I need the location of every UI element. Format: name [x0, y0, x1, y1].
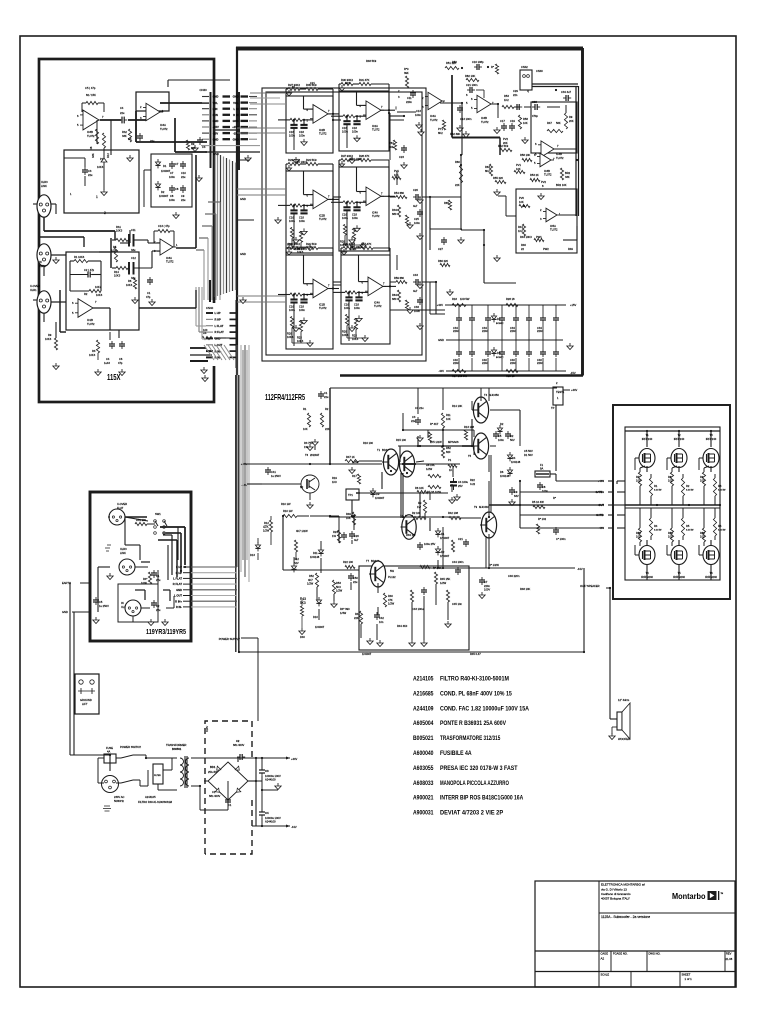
- svg-text:TL072: TL072: [481, 120, 489, 124]
- svg-text:R59 680: R59 680: [394, 276, 405, 280]
- svg-text:C18: C18: [354, 302, 359, 306]
- svg-text:OUT: OUT: [598, 503, 604, 507]
- svg-text:GND: GND: [62, 610, 68, 614]
- svg-text:+15V: +15V: [232, 125, 238, 129]
- svg-text:A600040: A600040: [413, 750, 434, 757]
- svg-text:C21: C21: [458, 537, 463, 541]
- svg-text:R65: R65: [444, 201, 449, 205]
- svg-text:220n: 220n: [453, 329, 459, 333]
- svg-text:IC3A: IC3A: [166, 256, 172, 260]
- svg-text:R2: R2: [84, 292, 88, 296]
- svg-text:BC805C: BC805C: [496, 357, 504, 359]
- svg-text:+40V: +40V: [437, 303, 443, 307]
- svg-text:C16 108p: C16 108p: [472, 60, 484, 64]
- svg-text:100n: 100n: [414, 309, 420, 313]
- svg-text:C3 22u: C3 22u: [415, 406, 424, 410]
- svg-text:680: 680: [392, 297, 397, 301]
- svg-text:R13 108: R13 108: [464, 425, 475, 429]
- svg-text:R22 100: R22 100: [343, 560, 354, 564]
- svg-text:BD1: BD1: [210, 765, 216, 769]
- svg-text:100n: 100n: [299, 308, 305, 312]
- svg-text:1N4007: 1N4007: [315, 625, 325, 629]
- svg-text:2: 2: [104, 211, 106, 215]
- svg-text:R7: R7: [636, 475, 640, 479]
- svg-text:100: 100: [203, 328, 208, 332]
- svg-text:R* 102: R* 102: [538, 517, 547, 521]
- svg-text:FILTRO R40-KI-3100/S031M: FILTRO R40-KI-3100/S031M: [138, 800, 172, 804]
- svg-text:R29 10K3: R29 10K3: [350, 245, 362, 249]
- svg-text:-44V: -44V: [598, 526, 604, 530]
- svg-text:R49: R49: [568, 247, 573, 251]
- svg-text:R52: R52: [309, 574, 314, 578]
- svg-text:TL072: TL072: [372, 214, 380, 218]
- svg-text:220n: 220n: [406, 100, 412, 104]
- svg-text:C22: C22: [345, 81, 350, 85]
- svg-text:X-OVER: X-OVER: [117, 502, 127, 506]
- svg-text:IC1B: IC1B: [319, 303, 325, 307]
- svg-text:230V AC: 230V AC: [114, 795, 125, 799]
- svg-text:100K: 100K: [141, 581, 147, 585]
- svg-text:1/2W: 1/2W: [336, 589, 343, 593]
- svg-text:VOL: VOL: [233, 101, 239, 105]
- svg-text:10K: 10K: [446, 417, 451, 421]
- svg-text:C10: C10: [181, 171, 186, 175]
- svg-text:115X: 115X: [107, 373, 121, 382]
- svg-text:MPSA06: MPSA06: [448, 440, 459, 444]
- svg-text:22u: 22u: [150, 139, 155, 143]
- svg-text:1N4007: 1N4007: [375, 496, 385, 500]
- svg-text:10K3: 10K3: [352, 337, 359, 341]
- svg-text:TL072: TL072: [430, 118, 438, 122]
- svg-text:IC4A: IC4A: [372, 210, 378, 214]
- svg-text:IC4A: IC4A: [160, 123, 166, 127]
- svg-text:WOOFER: WOOFER: [618, 737, 630, 741]
- svg-text:TEST1: TEST1: [556, 390, 565, 394]
- svg-text:+44V: +44V: [598, 479, 604, 483]
- svg-text:C18: C18: [299, 215, 304, 219]
- svg-text:1W: 1W: [332, 534, 336, 538]
- svg-text:0.22: 0.22: [470, 482, 476, 486]
- svg-text:T7: T7: [366, 559, 370, 563]
- svg-text:A900021: A900021: [413, 795, 434, 802]
- svg-text:OUT/ SPEAKER: OUT/ SPEAKER: [580, 584, 600, 588]
- svg-text:C27: C27: [438, 247, 443, 251]
- svg-text:100n: 100n: [354, 306, 360, 310]
- svg-text:P1: P1: [448, 458, 452, 462]
- svg-text:C1: C1: [324, 391, 328, 395]
- svg-text:2N2497: 2N2497: [310, 453, 320, 457]
- svg-text:A608033: A608033: [413, 780, 434, 787]
- svg-text:REV: REV: [726, 952, 732, 956]
- svg-text:R*: R*: [553, 496, 556, 500]
- svg-text:C19: C19: [510, 119, 515, 123]
- svg-text:4u7: 4u7: [354, 538, 359, 542]
- svg-text:LIFT: LIFT: [82, 702, 88, 706]
- svg-text:R41: R41: [355, 612, 360, 616]
- svg-text:R22 10K3: R22 10K3: [350, 157, 362, 161]
- svg-text:C5: C5: [99, 600, 103, 604]
- svg-text:220n: 220n: [537, 361, 543, 365]
- svg-text:310V: 310V: [205, 726, 209, 732]
- svg-text:L OUT: L OUT: [215, 343, 223, 347]
- svg-text:4u7: 4u7: [413, 204, 418, 208]
- svg-text:C18: C18: [352, 126, 357, 130]
- svg-text:DEVIAT 4/7203 2 VIE 2P: DEVIAT 4/7203 2 VIE 2P: [440, 810, 503, 817]
- svg-text:R53 2K: R53 2K: [530, 173, 539, 177]
- svg-text:MANOPOLA PICCOLA AZZURRO: MANOPOLA PICCOLA AZZURRO: [440, 780, 509, 787]
- svg-text:PONTE R B36931 25A 600V: PONTE R B36931 25A 600V: [440, 720, 507, 727]
- svg-text:C17: C17: [500, 119, 505, 123]
- svg-text:470p: 470p: [532, 114, 538, 118]
- svg-text:1K5 1/2W: 1K5 1/2W: [430, 440, 442, 444]
- svg-text:C1: C1: [147, 291, 151, 295]
- svg-text:1N4007: 1N4007: [362, 652, 372, 656]
- svg-text:+15V: +15V: [213, 125, 219, 129]
- svg-text:R42 108: R42 108: [448, 511, 459, 515]
- svg-text:1K8 5W: 1K8 5W: [460, 297, 470, 301]
- svg-text:R3: R3: [92, 349, 96, 353]
- svg-text:22n: 22n: [513, 93, 518, 97]
- svg-text:R18: R18: [452, 297, 457, 301]
- svg-text:D4: D4: [512, 456, 516, 460]
- svg-text:1K2: 1K2: [518, 229, 523, 233]
- svg-text:1u 250V: 1u 250V: [271, 474, 281, 478]
- svg-text:R82 10K: R82 10K: [465, 74, 476, 78]
- svg-text:TL072: TL072: [374, 304, 382, 308]
- svg-text:TL072: TL072: [319, 131, 327, 135]
- svg-text:SHEET: SHEET: [682, 973, 691, 977]
- svg-text:R50: R50: [452, 60, 457, 64]
- svg-text:IC4A: IC4A: [374, 300, 380, 304]
- svg-text:SCALE: SCALE: [601, 973, 610, 977]
- svg-text:10K3: 10K3: [116, 229, 123, 233]
- svg-text:C3: C3: [88, 169, 92, 173]
- svg-text:C12: C12: [131, 256, 136, 260]
- svg-text:220n: 220n: [510, 329, 516, 333]
- svg-text:100n: 100n: [498, 438, 504, 442]
- svg-text:R6: R6: [718, 524, 722, 528]
- svg-text:33K: 33K: [122, 134, 127, 138]
- svg-text:GND: GND: [213, 95, 219, 99]
- svg-text:GND: GND: [176, 588, 182, 592]
- svg-text:DWG NO.: DWG NO.: [649, 952, 661, 956]
- svg-text:Cadriano di Granarolo: Cadriano di Granarolo: [601, 892, 631, 896]
- svg-text:D2: D2: [510, 434, 514, 438]
- svg-text:C8: C8: [175, 187, 179, 191]
- svg-text:22u: 22u: [324, 395, 329, 399]
- svg-text:XLR1: XLR1: [30, 288, 37, 292]
- svg-text:100V: 100V: [484, 588, 490, 592]
- svg-text:1%: 1%: [304, 445, 308, 449]
- svg-text:R*: R*: [491, 65, 494, 69]
- svg-text:R58: R58: [523, 117, 528, 121]
- svg-text:R17 1K8 5W: R17 1K8 5W: [452, 374, 467, 378]
- svg-text:IC1B: IC1B: [87, 318, 93, 322]
- svg-text:PL122: PL122: [388, 575, 396, 579]
- svg-text:100n: 100n: [299, 219, 305, 223]
- svg-text:C3: C3: [412, 415, 416, 419]
- svg-text:22u: 22u: [411, 419, 416, 423]
- svg-text:D40: D40: [300, 635, 305, 639]
- svg-text:R24: R24: [333, 530, 338, 534]
- svg-text:R1 10K3: R1 10K3: [74, 255, 85, 259]
- svg-text:100n: 100n: [169, 198, 175, 202]
- svg-text:C1: C1: [228, 803, 232, 807]
- svg-text:GROUND: GROUND: [80, 698, 92, 702]
- svg-text:R55 220: R55 220: [493, 176, 504, 180]
- svg-text:-15V: -15V: [213, 131, 219, 135]
- svg-text:GATE+: GATE+: [595, 490, 604, 494]
- svg-text:R25: R25: [297, 336, 302, 340]
- svg-text:TP1: TP1: [348, 493, 353, 497]
- svg-text:R1: R1: [654, 484, 658, 488]
- svg-text:10K3: 10K3: [89, 353, 96, 357]
- svg-text:ELETTRONICA MONTARBO srl: ELETTRONICA MONTARBO srl: [601, 883, 645, 887]
- svg-text:1W: 1W: [417, 505, 421, 509]
- svg-text:8A: 8A: [540, 467, 543, 471]
- svg-text:C33: C33: [414, 305, 419, 309]
- svg-text:A244105: A244105: [145, 795, 156, 799]
- svg-text:COND. PL 68nF 400V 10% 15: COND. PL 68nF 400V 10% 15: [440, 690, 512, 697]
- svg-text:100n: 100n: [169, 175, 175, 179]
- svg-text:GND: GND: [213, 152, 219, 156]
- svg-text:LINK: LINK: [120, 551, 126, 555]
- svg-text:R14: R14: [114, 270, 119, 274]
- svg-text:R9: R9: [191, 142, 195, 146]
- svg-text:100: 100: [668, 479, 673, 483]
- svg-text:R19: R19: [332, 476, 337, 480]
- svg-text:100: 100: [700, 535, 705, 539]
- svg-text:BC805C: BC805C: [496, 323, 504, 325]
- svg-text:R64: R64: [392, 293, 397, 297]
- svg-text:20K: 20K: [569, 119, 574, 123]
- svg-text:R2: R2: [325, 407, 329, 411]
- svg-text:R10 1W: R10 1W: [283, 509, 293, 513]
- svg-text:1: 1: [96, 195, 98, 199]
- svg-text:R54 680: R54 680: [394, 191, 405, 195]
- svg-text:1K0: 1K0: [332, 480, 337, 484]
- svg-text:C18: C18: [299, 130, 304, 134]
- svg-text:47K: 47K: [263, 525, 270, 529]
- svg-text:FUSE: FUSE: [106, 746, 113, 750]
- svg-text:C21: C21: [310, 81, 315, 85]
- svg-text:22u: 22u: [120, 111, 125, 115]
- svg-text:T5: T5: [468, 454, 472, 458]
- svg-text:0.10 5W: 0.10 5W: [718, 530, 726, 532]
- svg-text:+44V: +44V: [291, 757, 297, 761]
- svg-text:XLR2: XLR2: [39, 264, 46, 268]
- svg-text:R48 10K: R48 10K: [520, 587, 531, 591]
- svg-text:39K: 39K: [404, 71, 409, 75]
- svg-text:C18: C18: [352, 212, 357, 216]
- svg-text:R26: R26: [342, 329, 347, 333]
- svg-text:C43: C43: [413, 273, 418, 277]
- svg-text:5K3: 5K3: [300, 601, 306, 605]
- svg-text:A605004: A605004: [413, 720, 434, 727]
- svg-text:119YR3/119YR5: 119YR3/119YR5: [146, 629, 186, 636]
- svg-text:C2: C2: [236, 739, 240, 743]
- svg-text:C18: C18: [299, 305, 304, 309]
- svg-text:R3: R3: [718, 484, 722, 488]
- svg-text:R44: R44: [518, 225, 523, 229]
- svg-text:TL072: TL072: [556, 156, 564, 160]
- svg-text:50V: 50V: [510, 438, 515, 442]
- svg-text:R43 10K3: R43 10K3: [520, 235, 532, 239]
- svg-text:GND: GND: [215, 337, 221, 341]
- svg-text:1/2W: 1/2W: [352, 460, 359, 464]
- svg-text:CAGE: CAGE: [601, 952, 609, 956]
- svg-text:220n: 220n: [482, 329, 488, 333]
- svg-text:TL072: TL072: [87, 134, 95, 138]
- svg-text:C38: C38: [532, 100, 537, 104]
- svg-text:FILTER: FILTER: [154, 775, 161, 777]
- svg-text:CN40: CN40: [206, 306, 214, 310]
- svg-text:1/2W: 1/2W: [307, 582, 314, 586]
- svg-text:C43 100u: C43 100u: [412, 607, 424, 611]
- svg-text:C8: C8: [542, 485, 546, 489]
- svg-text:1K2: 1K2: [504, 98, 509, 102]
- svg-text:T1: T1: [377, 448, 381, 452]
- svg-text:10K: 10K: [394, 173, 399, 177]
- svg-text:MJC350: MJC350: [489, 393, 499, 397]
- svg-text:GND: GND: [213, 137, 219, 141]
- svg-text:TL072: TL072: [544, 173, 552, 177]
- svg-text:INTERR BIP ROS B418C1G000 16A: INTERR BIP ROS B418C1G000 16A: [440, 795, 524, 802]
- svg-text:VOL: VOL: [213, 101, 219, 105]
- svg-text:C5 50V: C5 50V: [524, 449, 533, 453]
- svg-text:8K2: 8K2: [485, 169, 490, 173]
- svg-text:100n: 100n: [352, 216, 358, 220]
- svg-text:C4 100u: C4 100u: [458, 480, 469, 484]
- svg-text:1125A - Subwoofer - 2a version: 1125A - Subwoofer - 2a versione: [601, 915, 650, 919]
- svg-text:C45 10n: C45 10n: [452, 602, 463, 606]
- svg-text:R FLAT: R FLAT: [215, 330, 225, 334]
- svg-text:50/60Hz: 50/60Hz: [114, 799, 125, 803]
- svg-text:IC4A: IC4A: [430, 114, 436, 118]
- svg-text:56K: 56K: [556, 121, 561, 125]
- svg-text:R26: R26: [287, 332, 292, 336]
- svg-text:R5 10 4W: R5 10 4W: [532, 500, 544, 504]
- svg-text:PV2: PV2: [541, 180, 547, 184]
- svg-text:C7: C7: [175, 162, 179, 166]
- svg-text:C1: C1: [212, 790, 216, 794]
- svg-text:R4*: R4*: [143, 577, 147, 581]
- svg-text:C23: C23: [399, 155, 404, 159]
- svg-text:47p: 47p: [146, 295, 151, 299]
- svg-text:220n: 220n: [484, 584, 490, 588]
- svg-text:52V: 52V: [294, 561, 299, 565]
- svg-text:BR2: BR2: [565, 171, 571, 175]
- svg-text:100: 100: [636, 479, 641, 483]
- svg-text:R49: R49: [346, 512, 351, 516]
- svg-text:CN40: CN40: [536, 69, 543, 73]
- svg-text:1u 250V: 1u 250V: [99, 604, 109, 608]
- svg-text:R34 1W: R34 1W: [406, 533, 416, 537]
- svg-text:5K3: 5K3: [336, 585, 341, 589]
- svg-text:T4: T4: [484, 393, 488, 397]
- svg-text:XLR3: XLR3: [120, 547, 127, 551]
- svg-text:10K3: 10K3: [342, 333, 349, 337]
- svg-text:R51: R51: [668, 531, 673, 535]
- svg-text:22u: 22u: [181, 175, 186, 179]
- svg-text:L IN: L IN: [234, 107, 239, 111]
- svg-text:R4* 390: R4* 390: [340, 607, 350, 611]
- svg-text:68n 400V: 68n 400V: [209, 794, 221, 798]
- svg-text:22u: 22u: [353, 580, 358, 584]
- svg-text:D1 50V: D1 50V: [524, 453, 533, 457]
- svg-text:+44V: +44V: [571, 388, 577, 392]
- svg-text:C5 ( 47p: C5 ( 47p: [85, 86, 96, 90]
- svg-text:1N4148: 1N4148: [500, 474, 510, 478]
- svg-text:A214105: A214105: [413, 676, 434, 683]
- svg-text:22u: 22u: [181, 198, 186, 202]
- svg-text:820: 820: [446, 450, 451, 454]
- svg-text:R FLAT: R FLAT: [173, 582, 183, 586]
- svg-text:10K3: 10K3: [287, 335, 294, 339]
- svg-text:R44 4K0: R44 4K0: [397, 624, 408, 628]
- svg-text:1N4007: 1N4007: [440, 554, 450, 558]
- svg-text:10K3: 10K3: [126, 283, 133, 287]
- svg-text:SW1: SW1: [155, 512, 161, 516]
- svg-text:C41: C41: [271, 470, 276, 474]
- svg-text:A216685: A216685: [413, 690, 434, 697]
- svg-text:10K3: 10K3: [114, 274, 121, 278]
- svg-text:R40: R40: [388, 594, 393, 598]
- svg-text:TRASFORMATORE 312/315: TRASFORMATORE 312/315: [440, 735, 501, 742]
- svg-text:0.10 5W: 0.10 5W: [686, 490, 694, 492]
- svg-text:R12: R12: [106, 153, 110, 158]
- svg-text:IC3B: IC3B: [556, 152, 562, 156]
- svg-text:Montarbo: Montarbo: [672, 892, 706, 901]
- svg-text:21.08: 21.08: [726, 957, 733, 961]
- svg-text:10K: 10K: [519, 200, 524, 204]
- svg-text:R16 100: R16 100: [363, 441, 374, 445]
- svg-text:R24 5K9: R24 5K9: [306, 158, 317, 162]
- svg-text:R21 5K9: R21 5K9: [306, 242, 317, 246]
- svg-text:5W: 5W: [390, 569, 394, 573]
- svg-text:R47 1K: R47 1K: [346, 455, 355, 459]
- svg-text:TL072: TL072: [550, 228, 558, 232]
- svg-text:T9: T9: [474, 505, 478, 509]
- svg-text:47p: 47p: [118, 361, 123, 365]
- svg-text:1K: 1K: [449, 468, 452, 472]
- svg-text:68n 400V: 68n 400V: [233, 743, 245, 747]
- svg-text:C13: C13: [416, 109, 421, 113]
- svg-text:R60: R60: [455, 160, 460, 164]
- svg-text:R26 10K3: R26 10K3: [295, 247, 307, 251]
- svg-text:47K: 47K: [388, 598, 393, 602]
- svg-text:1/2W: 1/2W: [388, 602, 395, 606]
- svg-text:-44V: -44V: [291, 825, 297, 829]
- svg-text:100n: 100n: [415, 113, 421, 117]
- svg-text:POWER SWITCH: POWER SWITCH: [120, 745, 141, 749]
- svg-text:100u 25V: 100u 25V: [424, 542, 436, 546]
- svg-text:10K3: 10K3: [45, 337, 52, 341]
- svg-text:PW2: PW2: [543, 247, 549, 251]
- svg-text:C3: C3: [128, 137, 132, 141]
- svg-text:0.10 5W: 0.10 5W: [654, 530, 662, 532]
- svg-text:L FLAT: L FLAT: [173, 577, 182, 581]
- svg-text:C11: C11: [131, 228, 136, 232]
- svg-text:B46501: B46501: [172, 747, 182, 751]
- svg-text:PV2: PV2: [503, 137, 509, 141]
- svg-text:IC3B: IC3B: [544, 169, 550, 173]
- svg-text:R3 750: R3 750: [304, 441, 313, 445]
- svg-text:X-OVER: X-OVER: [30, 284, 40, 288]
- svg-text:R29 18: R29 18: [506, 374, 515, 378]
- svg-text:IC4B: IC4B: [481, 116, 487, 120]
- svg-text:63V: 63V: [514, 494, 519, 498]
